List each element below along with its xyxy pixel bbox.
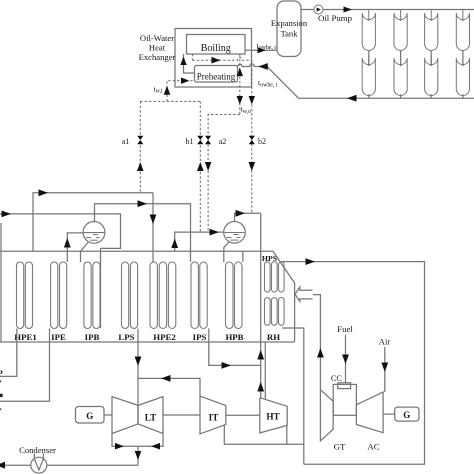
arrow up GT exhaust (317, 348, 324, 358)
arrow up on b1 line (197, 162, 204, 171)
tube bundle HPB (226, 262, 243, 329)
svg-text:Exchanger: Exchanger (139, 52, 176, 62)
tube bundle HPS (superheater, upper) (265, 262, 285, 292)
wire: t_w,i riser dashed (167, 81, 195, 102)
svg-text:G: G (86, 411, 93, 421)
valve b2 (249, 136, 255, 144)
wire: HP drum steam out to HPS (235, 213, 261, 222)
wire: tank to oil pump to header (301, 9, 474, 11)
combustor casing box (333, 384, 356, 415)
valve a1 (137, 136, 143, 144)
wire: stub duct to HT top (264, 342, 266, 399)
arrow down to condenser (135, 451, 142, 460)
arrow down into HPE2 (150, 215, 157, 225)
wire: IPB riser (100, 248, 102, 328)
wire: IP drum steam out to IPS (95, 204, 191, 262)
HRSG duct right wall (294, 282, 296, 342)
svg-text:P: P (0, 368, 3, 378)
svg-text:Expansion: Expansion (271, 18, 308, 28)
wire: HPE1 outlet riser to economizer link (33, 193, 153, 252)
turbine LT (double flow) (112, 397, 163, 434)
arrow right into HP drum (210, 229, 220, 236)
wire: return diagonal to t_owhe,i (238, 64, 299, 98)
arrow left crossover (161, 375, 171, 382)
stem between rows #3 (430, 51, 432, 67)
arrow left condensate (clipped) (0, 462, 5, 469)
solar collector tube row2 #4 (456, 56, 469, 96)
HRSG duct bottom wall (0, 341, 295, 343)
solar collector tube row1 #3 (425, 10, 438, 51)
shaft IT-HT (226, 414, 260, 416)
wire: IT exhaust crossover to LT (138, 378, 200, 396)
svg-text:CC: CC (331, 374, 343, 383)
arrow left on return header (347, 95, 357, 102)
svg-text:RH: RH (267, 332, 280, 342)
svg-text:LT: LT (145, 413, 156, 423)
compressor AC (356, 392, 383, 433)
arrow up cold reheat 1 (257, 350, 264, 360)
wire: IPE feed exit left (0, 329, 50, 402)
tube bundle RH (reheater, lower) (265, 298, 285, 326)
wire: condensate line (0, 464, 138, 466)
wire: b1 dashed line (199, 101, 201, 232)
wire: HPE2 outlet to HP drum (175, 232, 224, 251)
wire: IP drum feed (67, 233, 83, 262)
wire: water dashed vertical x=251.8 (b2) (251, 60, 253, 213)
arrow right in hood (115, 443, 124, 450)
shaft G-LT (104, 414, 112, 416)
svg-text:Oil Pump: Oil Pump (318, 13, 353, 23)
tube bundle LPS (122, 262, 138, 329)
wire: HP drum downcomer (224, 241, 230, 262)
wire: HPS main steam line (281, 262, 425, 465)
svg-text:HPE2: HPE2 (153, 332, 176, 342)
wire: IPS steam to reheat merge (209, 329, 261, 366)
arrow up IP feed (64, 238, 71, 248)
condenser stub right (42, 454, 44, 461)
oil-water heat exchanger outer box (175, 29, 252, 88)
svg-text:IT: IT (209, 413, 219, 423)
svg-text:Air: Air (379, 337, 391, 347)
svg-text:HPB: HPB (225, 332, 243, 342)
arrow right into Preheating (181, 78, 190, 84)
generator G (steam) (76, 407, 105, 424)
wire: water dashed vertical x=239.8 (to a2) (239, 55, 241, 115)
arrow down t_w,o right (249, 96, 255, 105)
Preheating unit box (195, 66, 238, 83)
Boiling unit box (187, 35, 246, 55)
arrow down t_w,o left (237, 96, 243, 105)
turbine GT (320, 390, 333, 441)
tube bundle IPS (191, 262, 207, 329)
wire: HPB riser (242, 251, 244, 262)
HRSG duct chamfer corner (273, 251, 295, 283)
wire: IP drum downcomer (81, 243, 89, 263)
wire: water dashed Boiling outlet down (191, 54, 193, 60)
bottom stems to return header (368, 94, 370, 98)
shaft AC-G (383, 413, 395, 415)
stem between rows #4 (462, 51, 464, 67)
oil pump (314, 5, 323, 14)
stem between rows #1 (368, 51, 370, 67)
svg-text:Oil-Water: Oil-Water (140, 33, 174, 43)
svg-text:IPB: IPB (85, 332, 100, 342)
wire: down into HPE2 (152, 193, 154, 262)
HRSG duct top wall (0, 250, 273, 252)
arrow right on water line (212, 57, 221, 64)
arrow up into Boiling (180, 57, 186, 66)
combustion chamber CC box (338, 383, 351, 389)
tube bundle IPE (51, 262, 67, 329)
arrow down air (381, 363, 388, 373)
svg-text:b1: b1 (186, 137, 194, 146)
arrow right HPS steam (306, 258, 316, 265)
wire: HPE1 feed exit left (0, 329, 17, 377)
svg-text:Preheating: Preheating (197, 72, 236, 82)
wire: feed line y=213.9 loop to IPB riser (0, 214, 121, 249)
wire: dashed manifold y=101.4 (140, 100, 200, 102)
solar collector tube row1 #1 (362, 10, 375, 51)
valve b1 (197, 136, 203, 144)
arrow up cold reheat 2 (257, 382, 264, 392)
stem between rows #2 (400, 51, 402, 67)
turbine IT (200, 396, 226, 434)
wire: t_owhe,o oil line Boiling to Expansion Tank (245, 49, 277, 51)
arrow down fuel (342, 355, 349, 365)
wire: LPS steam to LT (137, 329, 139, 406)
solar collector tube row2 #2 (394, 56, 407, 95)
svg-text:Tank: Tank (280, 29, 298, 39)
arrow down LPS steam (135, 357, 142, 367)
turbine HT (260, 398, 287, 433)
valve a2 (205, 136, 211, 144)
shaft LT-IT (163, 414, 200, 416)
arrow up t_w,i (164, 86, 171, 95)
wire: RH outlet (hot reheat) (282, 328, 304, 464)
generator G (gas) (395, 407, 419, 421)
clipped left-edge gl.yphs (0, 380, 1, 382)
arrow down on b2 line (249, 162, 256, 171)
condenser (31, 457, 47, 473)
svg-text:IPE: IPE (51, 332, 66, 342)
svg-text:HPS: HPS (262, 254, 277, 263)
HP steam drum (224, 222, 246, 244)
tube bundle HPE2 (150, 262, 176, 329)
wire: GT exhaust to duct (313, 295, 320, 390)
arrow left in hood (151, 443, 160, 450)
svg-text:HT: HT (266, 412, 279, 422)
svg-text:IPS: IPS (193, 332, 207, 342)
wire: a1 dashed line (139, 101, 141, 192)
svg-text:AC: AC (367, 442, 379, 452)
svg-text:Fuel: Fuel (337, 324, 353, 334)
svg-text:Condenser: Condenser (19, 445, 56, 455)
wire: water dashed jog to a2 valve (208, 115, 240, 232)
left edge stub line (0, 223, 2, 342)
svg-text:HPE1: HPE1 (14, 332, 36, 342)
wire: turbine admission header y=444.3 (224, 425, 303, 444)
wire: collector return header (299, 97, 474, 99)
solar collector tube row2 #1 (362, 56, 375, 95)
solar collector tube row2 #3 (425, 56, 438, 96)
solar collector tube row1 #2 (394, 10, 407, 51)
arrow up HP feed (171, 239, 178, 249)
IP steam drum (83, 222, 105, 244)
svg-text:Heat: Heat (149, 43, 166, 53)
svg-text:Boiling: Boiling (201, 43, 231, 54)
condenser stub left (33, 454, 35, 461)
svg-text:a1: a1 (122, 137, 130, 146)
wire: HT inlet from header (286, 425, 288, 444)
svg-text:G: G (403, 410, 410, 420)
arrow down on a2 line (205, 162, 212, 171)
wire: long vertical x=260.7 (HP steam down through duct / cold reheat) (260, 213, 262, 397)
arrow right IPS merge (222, 362, 232, 369)
expansion tank (277, 1, 301, 57)
svg-text:LPS: LPS (118, 332, 134, 342)
LT exhaust hood (112, 434, 163, 447)
svg-text:b2: b2 (258, 137, 266, 146)
svg-text:GT: GT (334, 442, 346, 452)
tube bundle HPE1 (17, 262, 33, 329)
arrow right after pump (344, 7, 353, 13)
wire: oil path Preheating to Boiling (internal) (184, 54, 195, 73)
arrow up on a1 line (137, 162, 144, 171)
solar collector tube row1 #4 (456, 10, 469, 51)
tube bundle IPB (84, 262, 100, 329)
duct inlet open arrow (295, 287, 313, 301)
arrow up at preheating outlet (237, 68, 243, 77)
wire: water dashed horizontal inside box with hop (192, 57, 251, 60)
svg-text:a2: a2 (219, 137, 227, 146)
arrow left into Preheating (oil return) (258, 63, 268, 70)
